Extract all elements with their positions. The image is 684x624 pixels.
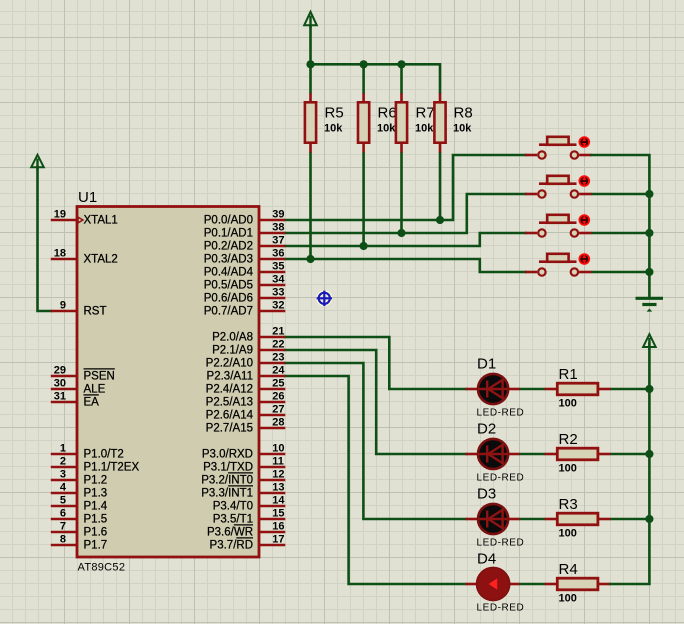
junction rail/R3 — [645, 515, 653, 523]
pin 30 ALE — [51, 377, 106, 395]
svg-text:P2.2/A10: P2.2/A10 — [206, 358, 253, 370]
svg-text:P2.6/A14: P2.6/A14 — [206, 410, 254, 422]
svg-text:P0.7/AD7: P0.7/AD7 — [204, 306, 253, 318]
svg-text:3: 3 — [60, 468, 66, 480]
resistor R2 100 — [545, 448, 611, 460]
pin 10 P3.0/RXD — [202, 442, 285, 460]
wire VCC-left down to RST row then right — [38, 167, 52, 311]
svg-text:100: 100 — [559, 528, 577, 540]
svg-text:26: 26 — [272, 390, 284, 402]
label R7 — [416, 105, 435, 122]
pin 9 RST — [51, 299, 107, 317]
pin 15 P3.5/T1 — [213, 507, 286, 525]
wire P0.0(39) to button SW1 — [285, 155, 526, 220]
svg-text:10k: 10k — [453, 123, 472, 135]
wire pull-up bus horizontal — [311, 63, 441, 66]
pin 39 P0.0/AD0 — [204, 208, 286, 226]
junction R5/pin36 wire — [306, 255, 314, 263]
svg-text:D2: D2 — [477, 421, 496, 438]
pin 5 P1.4 — [51, 494, 108, 512]
origin marker (blue crosshair) — [317, 291, 332, 306]
svg-text:4: 4 — [60, 481, 67, 493]
pin 21 P2.0/A8 — [212, 325, 285, 343]
svg-text:19: 19 — [54, 208, 66, 220]
junction R8/pin39 wire — [436, 216, 444, 224]
value 10k of R5 — [324, 123, 343, 135]
svg-text:P2.4/A12: P2.4/A12 — [206, 384, 253, 396]
wire R2 to VCC rail — [611, 453, 650, 456]
resistor R7 10k (pull-up P0.1) — [396, 64, 407, 233]
wire P2.0(21) to LED D1 — [285, 337, 466, 389]
svg-text:P3.6/WR: P3.6/WR — [207, 527, 253, 539]
svg-text:P0.0/AD0: P0.0/AD0 — [204, 215, 253, 227]
junction R6/pin37 wire — [360, 242, 368, 250]
value 100 of R1 — [559, 398, 577, 410]
ground symbol — [636, 298, 664, 311]
junction rail/R2 — [645, 450, 653, 458]
wire P0.3(36) to button SW4 — [285, 259, 526, 272]
svg-text:P1.2: P1.2 — [84, 475, 108, 487]
wire P0.2(37) to button SW3 — [285, 233, 526, 246]
value LED-RED of D1 — [477, 408, 525, 419]
pin 28 P2.7/A15 — [206, 416, 286, 434]
pin 25 P2.4/A12 — [206, 377, 286, 395]
svg-text:10k: 10k — [377, 123, 396, 135]
push button SW2 — [525, 175, 592, 198]
svg-text:P3.3/INT1: P3.3/INT1 — [201, 488, 253, 500]
pin 31 EA — [51, 390, 99, 408]
junction rail/SW2 — [645, 190, 653, 198]
svg-text:P1.4: P1.4 — [84, 501, 108, 513]
pin 11 P3.1/TXD — [203, 455, 285, 473]
svg-text:33: 33 — [272, 286, 284, 298]
wire P2.3(24) to LED D4 — [285, 376, 466, 584]
pin 17 P3.7/RD — [210, 533, 286, 551]
junction bus/R6 — [360, 60, 368, 68]
pin 26 P2.5/A13 — [206, 390, 286, 408]
svg-text:31: 31 — [54, 390, 66, 402]
pin 33 P0.6/AD6 — [204, 286, 286, 304]
wire LED to resistor at y=519 — [520, 518, 546, 521]
pin 29 PSEN — [51, 364, 115, 382]
value 100 of R3 — [559, 528, 577, 540]
svg-text:AT89C52: AT89C52 — [78, 562, 126, 574]
svg-text:R7: R7 — [416, 105, 435, 122]
LED D3 LED-RED (off) — [466, 504, 520, 534]
svg-text:P3.5/T1: P3.5/T1 — [213, 514, 253, 526]
svg-text:U1: U1 — [78, 189, 97, 206]
svg-text:27: 27 — [272, 403, 284, 415]
svg-text:EA: EA — [84, 397, 100, 409]
svg-text:R2: R2 — [559, 431, 578, 448]
svg-text:17: 17 — [272, 533, 284, 545]
svg-text:29: 29 — [54, 364, 66, 376]
svg-text:D4: D4 — [477, 551, 496, 568]
label R1 — [559, 366, 578, 383]
pin 35 P0.4/AD4 — [204, 260, 286, 278]
svg-text:P1.3: P1.3 — [84, 488, 108, 500]
resistor R6 10k (pull-up P0.2) — [358, 64, 369, 246]
power symbol VCC (right, LED rail) — [643, 334, 656, 350]
svg-text:P0.4/AD4: P0.4/AD4 — [204, 267, 254, 279]
svg-text:34: 34 — [272, 273, 285, 285]
svg-text:P2.0/A8: P2.0/A8 — [212, 332, 253, 344]
svg-text:R5: R5 — [325, 105, 344, 122]
resistor R1 100 — [545, 383, 611, 395]
value LED-RED of D3 — [477, 538, 525, 549]
LED D4 LED-RED (lit) — [466, 567, 520, 600]
wire SW1 to ground rail and rail down — [592, 155, 650, 297]
svg-text:37: 37 — [272, 234, 284, 246]
wire LED to resistor at y=454 — [520, 453, 546, 456]
svg-text:P3.2/INT0: P3.2/INT0 — [201, 475, 253, 487]
svg-text:100: 100 — [559, 398, 577, 410]
svg-text:R6: R6 — [378, 105, 397, 122]
svg-text:11: 11 — [272, 455, 284, 467]
push button SW4 — [525, 253, 592, 275]
svg-text:22: 22 — [272, 338, 284, 350]
svg-text:P3.1/TXD: P3.1/TXD — [203, 462, 253, 474]
pin 18 XTAL2 — [51, 247, 118, 265]
pin 1 P1.0/T2 — [51, 442, 124, 460]
push button SW3 — [525, 214, 592, 237]
value 100 of R4 — [559, 593, 577, 605]
svg-text:P3.7/RD: P3.7/RD — [210, 540, 253, 552]
pin 22 P2.1/A9 — [212, 338, 285, 356]
svg-text:2: 2 — [60, 455, 66, 467]
svg-text:P1.0/T2: P1.0/T2 — [84, 449, 124, 461]
svg-text:8: 8 — [60, 533, 66, 545]
pin 24 P2.3/A11 — [207, 364, 286, 382]
label D1 — [477, 356, 496, 373]
svg-text:LED-RED: LED-RED — [477, 538, 525, 549]
svg-text:39: 39 — [272, 208, 284, 220]
wire SW4 to ground rail — [592, 271, 650, 274]
pin 8 P1.7 — [51, 533, 107, 551]
LED D2 LED-RED (off) — [466, 439, 520, 469]
pin 14 P3.4/T0 — [213, 494, 286, 512]
wire bus corner down to R8 — [439, 63, 442, 94]
pin 2 P1.1/T2EX — [51, 455, 140, 473]
svg-text:P0.6/AD6: P0.6/AD6 — [204, 293, 253, 305]
svg-text:36: 36 — [272, 247, 284, 259]
value LED-RED of D2 — [477, 473, 525, 484]
pin 3 P1.2 — [51, 468, 107, 486]
LED D1 LED-RED (off) — [466, 374, 520, 404]
svg-text:32: 32 — [272, 299, 284, 311]
value 100 of R2 — [559, 463, 577, 475]
svg-text:12: 12 — [272, 468, 284, 480]
svg-text:100: 100 — [559, 463, 577, 475]
svg-text:P0.2/AD2: P0.2/AD2 — [204, 241, 253, 253]
svg-text:16: 16 — [272, 520, 284, 532]
junction rail/SW4 — [645, 268, 653, 276]
value 10k of R6 — [377, 123, 396, 135]
svg-text:P0.5/AD5: P0.5/AD5 — [204, 280, 253, 292]
wire P0.1(38) to button SW2 — [285, 194, 526, 233]
junction R7/pin38 wire — [397, 229, 405, 237]
svg-text:XTAL2: XTAL2 — [84, 254, 118, 266]
power symbol VCC (left, feeds RST) — [31, 155, 44, 171]
svg-text:P3.0/RXD: P3.0/RXD — [202, 449, 253, 461]
pin 12 P3.2/INT0 — [201, 468, 285, 486]
pin 23 P2.2/A10 — [206, 351, 286, 369]
pin 16 P3.6/WR — [207, 520, 285, 538]
pin 37 P0.2/AD2 — [204, 234, 286, 252]
pin 19 XTAL1 — [51, 208, 118, 226]
svg-text:RST: RST — [84, 306, 107, 318]
svg-text:P1.6: P1.6 — [84, 527, 108, 539]
svg-text:10k: 10k — [324, 123, 343, 135]
svg-text:35: 35 — [272, 260, 284, 272]
svg-text:9: 9 — [60, 299, 66, 311]
svg-text:LED-RED: LED-RED — [477, 603, 525, 614]
label R5 — [325, 105, 344, 122]
svg-text:D1: D1 — [477, 356, 496, 373]
svg-text:PSEN: PSEN — [84, 371, 115, 383]
svg-text:P0.1/AD1: P0.1/AD1 — [204, 228, 253, 240]
resistor R8 10k (pull-up P0.0) — [434, 93, 445, 220]
resistor R3 100 — [545, 513, 611, 525]
label D4 — [477, 551, 496, 568]
svg-text:21: 21 — [272, 325, 284, 337]
svg-text:100: 100 — [559, 593, 577, 605]
svg-text:24: 24 — [272, 364, 285, 376]
junction rail/R1 — [645, 385, 653, 393]
pin 36 P0.3/AD3 — [204, 247, 286, 265]
svg-text:P2.1/A9: P2.1/A9 — [212, 345, 253, 357]
pin 38 P0.1/AD1 — [204, 221, 286, 239]
svg-text:23: 23 — [272, 351, 284, 363]
IC U1 AT89C52 body — [77, 207, 259, 558]
power symbol VCC (top, feeds pull-up bus) — [304, 12, 317, 29]
svg-text:P1.1/T2EX: P1.1/T2EX — [84, 462, 140, 474]
wire R1 to VCC rail — [611, 388, 650, 391]
label R8 — [454, 105, 473, 122]
pin 6 P1.5 — [51, 507, 107, 525]
svg-text:7: 7 — [60, 520, 66, 532]
svg-text:P3.4/T0: P3.4/T0 — [213, 501, 253, 513]
pin 32 P0.7/AD7 — [204, 299, 286, 317]
svg-text:P1.7: P1.7 — [84, 540, 108, 552]
junction bus/R7 — [397, 60, 405, 68]
svg-text:10k: 10k — [415, 123, 434, 135]
wire SW2 to ground rail — [592, 193, 650, 196]
svg-text:1: 1 — [60, 442, 66, 454]
wire VCC-top down to bus — [309, 25, 312, 64]
svg-text:LED-RED: LED-RED — [477, 408, 525, 419]
svg-text:P2.5/A13: P2.5/A13 — [206, 397, 253, 409]
svg-text:P2.7/A15: P2.7/A15 — [206, 423, 253, 435]
pin 7 P1.6 — [51, 520, 107, 538]
label R3 — [559, 496, 578, 513]
svg-text:5: 5 — [60, 494, 66, 506]
pin 13 P3.3/INT1 — [201, 481, 285, 499]
junction rail/SW3 — [645, 229, 653, 237]
svg-text:R1: R1 — [559, 366, 578, 383]
value 10k of R7 — [415, 123, 434, 135]
svg-text:14: 14 — [272, 494, 285, 506]
svg-text:P1.5: P1.5 — [84, 514, 108, 526]
svg-text:18: 18 — [54, 247, 66, 259]
resistor R4 100 — [545, 578, 611, 590]
svg-text:LED-RED: LED-RED — [477, 473, 525, 484]
svg-text:P0.3/AD3: P0.3/AD3 — [204, 254, 253, 266]
wire SW3 to ground rail — [592, 232, 650, 235]
push button SW1 — [525, 136, 592, 159]
wire LED to resistor at y=389 — [520, 388, 546, 391]
wire P2.1(22) to LED D2 — [285, 350, 466, 454]
value LED-RED of D4 — [477, 603, 525, 614]
label D3 — [477, 486, 496, 503]
label R2 — [559, 431, 578, 448]
svg-text:28: 28 — [272, 416, 284, 428]
svg-text:P2.3/A11: P2.3/A11 — [207, 371, 253, 383]
value 10k of R8 — [453, 123, 472, 135]
wire R3 to VCC rail — [611, 518, 650, 521]
svg-text:38: 38 — [272, 221, 284, 233]
wire LED to resistor at y=584 — [520, 583, 546, 586]
label R6 — [378, 105, 397, 122]
svg-text:10: 10 — [272, 442, 284, 454]
svg-text:R3: R3 — [559, 496, 578, 513]
pin 34 P0.5/AD5 — [204, 273, 286, 291]
svg-text:6: 6 — [60, 507, 66, 519]
value AT89C52 of U1 — [78, 562, 126, 574]
svg-text:R4: R4 — [559, 561, 578, 578]
resistor R5 10k (pull-up P0.3) — [305, 64, 316, 259]
wire P2.2(23) to LED D3 — [285, 363, 466, 519]
wire R4 to VCC rail corner — [611, 344, 650, 585]
junction bus/R5 — [306, 60, 314, 68]
pin 4 P1.3 — [51, 481, 107, 499]
label U1 — [78, 189, 97, 206]
svg-text:ALE: ALE — [84, 384, 106, 396]
svg-text:15: 15 — [272, 507, 284, 519]
svg-text:30: 30 — [54, 377, 66, 389]
svg-text:D3: D3 — [477, 486, 496, 503]
svg-text:XTAL1: XTAL1 — [84, 215, 118, 227]
svg-text:R8: R8 — [454, 105, 473, 122]
svg-text:13: 13 — [272, 481, 284, 493]
label R4 — [559, 561, 578, 578]
svg-text:25: 25 — [272, 377, 284, 389]
label D2 — [477, 421, 496, 438]
pin 27 P2.6/A14 — [206, 403, 286, 421]
